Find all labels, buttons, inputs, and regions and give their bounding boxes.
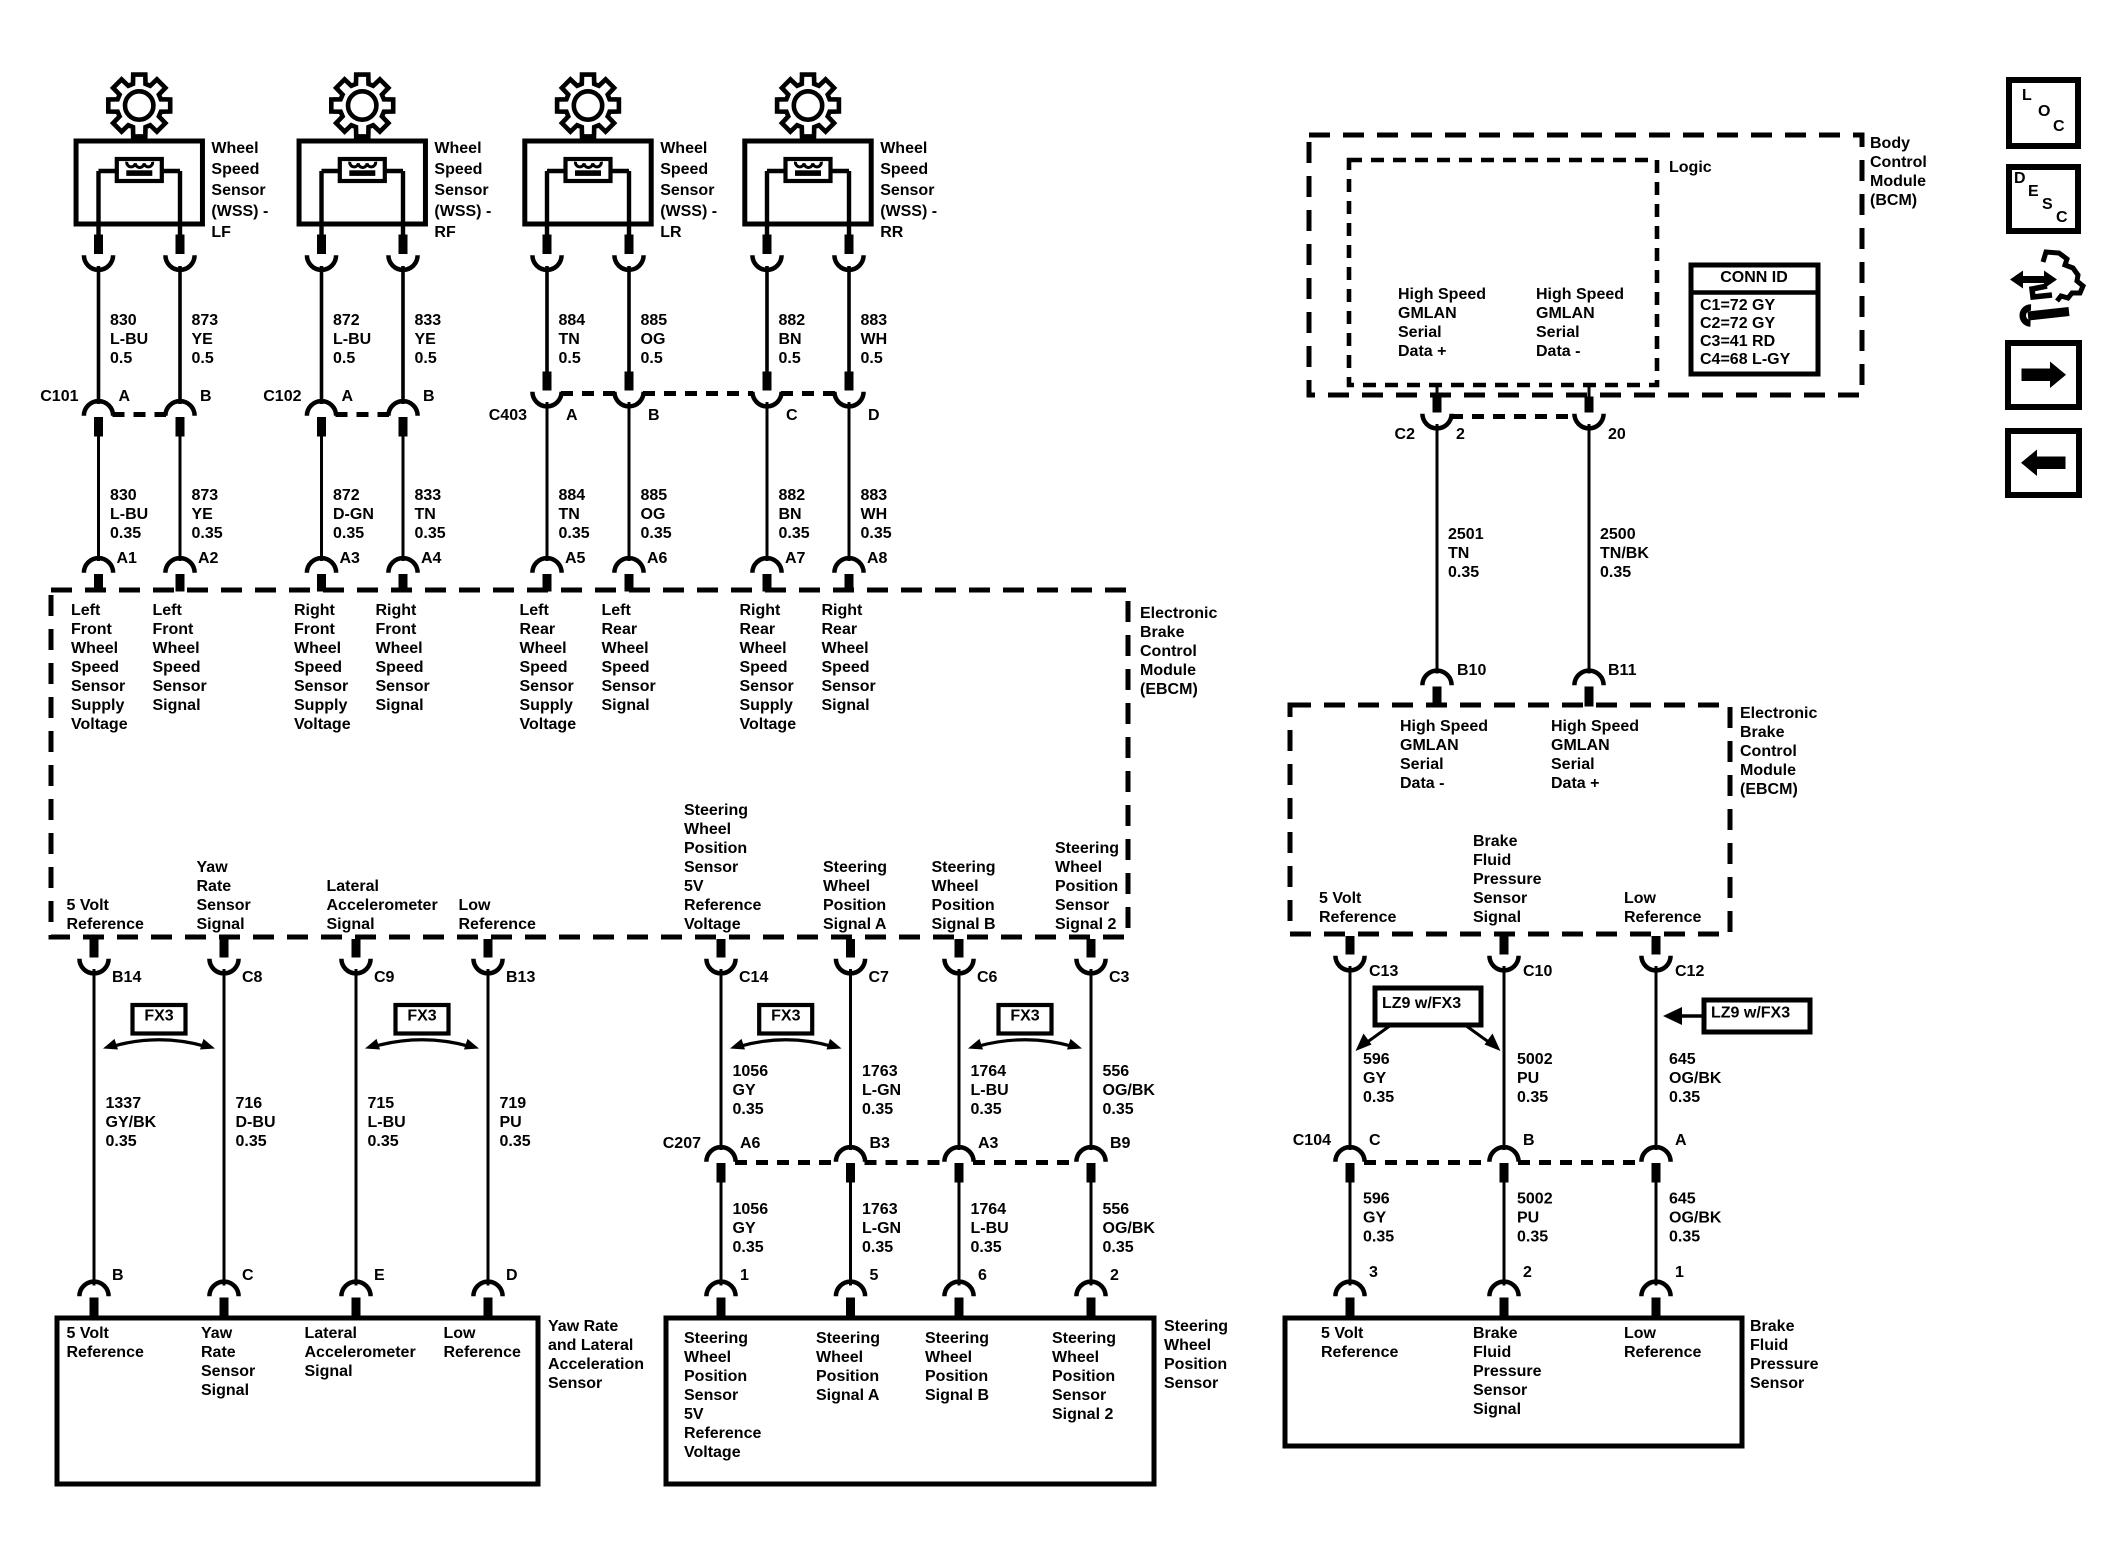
svg-text:Wheel: Wheel: [376, 640, 423, 657]
FX3 splice flag steering 2: [968, 1005, 1082, 1050]
svg-text:Rear: Rear: [822, 621, 858, 638]
wire 596 GY 0.35 lower: [1350, 1182, 1394, 1286]
wire 1763 L-GN 0.35 lower: [851, 1182, 902, 1286]
svg-text:830: 830: [110, 312, 137, 329]
svg-text:A4: A4: [421, 550, 442, 567]
svg-text:Control: Control: [1740, 743, 1797, 760]
svg-text:0.35: 0.35: [1103, 1101, 1134, 1118]
gear icon wheel RR: [777, 75, 839, 137]
svg-text:Pressure: Pressure: [1750, 1356, 1819, 1373]
svg-text:High Speed: High Speed: [1400, 718, 1488, 735]
svg-text:Position: Position: [925, 1368, 988, 1385]
forward arrow icon: [2008, 343, 2079, 407]
EBCM pin A1 connector: [84, 550, 137, 591]
svg-text:WH: WH: [861, 506, 888, 523]
Body Control Module (BCM) dashed box: [1309, 135, 1862, 395]
FX3 splice flag left 2: [365, 1005, 479, 1050]
svg-text:Steering: Steering: [925, 1330, 989, 1347]
FX3 splice flag left 1: [103, 1005, 215, 1050]
svg-text:1337: 1337: [106, 1095, 142, 1112]
svg-text:GY/BK: GY/BK: [106, 1114, 157, 1131]
wire 716 D-BU 0.35: [224, 969, 276, 1286]
yaw sensor pin C connector: [209, 1267, 254, 1317]
svg-text:1: 1: [740, 1267, 749, 1284]
Electronic Brake Control Module (EBCM) dashed box: [51, 590, 1128, 937]
svg-text:OG/BK: OG/BK: [1103, 1082, 1156, 1099]
svg-text:0.35: 0.35: [368, 1133, 399, 1150]
svg-text:LF: LF: [211, 224, 231, 241]
svg-text:Control: Control: [1870, 154, 1927, 171]
label Wheel Speed Sensor (WSS) LR: [660, 140, 717, 241]
svg-text:Voltage: Voltage: [684, 916, 741, 933]
svg-text:Reference: Reference: [67, 1344, 144, 1361]
svg-text:833: 833: [415, 312, 442, 329]
svg-text:C4=68 L-GY: C4=68 L-GY: [1700, 351, 1791, 368]
svg-text:2: 2: [1523, 1264, 1532, 1281]
svg-text:0.35: 0.35: [415, 525, 446, 542]
svg-text:Electronic: Electronic: [1740, 705, 1817, 722]
svg-text:Sensor: Sensor: [520, 678, 574, 695]
svg-text:Sensor: Sensor: [822, 678, 876, 695]
svg-text:Sensor: Sensor: [660, 182, 714, 199]
svg-text:Sensor: Sensor: [153, 678, 207, 695]
svg-text:Wheel: Wheel: [294, 640, 341, 657]
svg-text:Signal A: Signal A: [823, 916, 887, 933]
wire 5002 PU 0.35 upper: [1504, 966, 1553, 1150]
EBCM pin C3 connector: [1076, 940, 1129, 986]
brake sensor pin 3 connector: [1335, 1264, 1378, 1317]
svg-text:884: 884: [559, 487, 586, 504]
svg-text:Wheel: Wheel: [684, 821, 731, 838]
svg-text:0.35: 0.35: [733, 1101, 764, 1118]
svg-text:L-GN: L-GN: [862, 1082, 901, 1099]
svg-text:Yaw: Yaw: [197, 859, 229, 876]
svg-text:Signal: Signal: [1473, 1401, 1521, 1418]
C104 dashed links: [1364, 1160, 1642, 1165]
svg-text:0.35: 0.35: [192, 525, 223, 542]
svg-text:Fluid: Fluid: [1473, 852, 1511, 869]
svg-text:L-BU: L-BU: [110, 331, 148, 348]
svg-text:PU: PU: [1517, 1209, 1539, 1226]
svg-text:Wheel: Wheel: [71, 640, 118, 657]
svg-text:Module: Module: [1870, 173, 1926, 190]
svg-text:B3: B3: [870, 1135, 891, 1152]
svg-text:C8: C8: [242, 969, 263, 986]
svg-text:GMLAN: GMLAN: [1536, 305, 1595, 322]
label Wheel Speed Sensor (WSS) RR: [880, 140, 937, 241]
svg-text:0.35: 0.35: [1363, 1228, 1394, 1245]
EBCM pin A8 connector: [834, 550, 887, 591]
svg-text:L-BU: L-BU: [110, 506, 148, 523]
svg-text:Signal 2: Signal 2: [1052, 1406, 1113, 1423]
steering sensor pin 2 connector: [1076, 1267, 1119, 1317]
EBCM pin C13 connector: [1335, 937, 1398, 980]
brake sensor terminal labels: [1321, 1325, 1701, 1418]
svg-text:A: A: [119, 388, 131, 405]
svg-text:556: 556: [1103, 1063, 1130, 1080]
svg-text:Signal B: Signal B: [932, 916, 996, 933]
svg-text:5V: 5V: [684, 1406, 704, 1423]
svg-text:Right: Right: [294, 602, 336, 619]
svg-text:Pressure: Pressure: [1473, 1363, 1542, 1380]
svg-text:Yaw: Yaw: [201, 1325, 233, 1342]
svg-text:Position: Position: [1164, 1356, 1227, 1373]
svg-text:0.35: 0.35: [1103, 1239, 1134, 1256]
svg-text:(WSS) -: (WSS) -: [660, 203, 717, 220]
svg-text:C207: C207: [663, 1135, 701, 1152]
svg-text:Rear: Rear: [602, 621, 638, 638]
svg-text:Sensor: Sensor: [434, 182, 488, 199]
svg-text:A7: A7: [785, 550, 806, 567]
svg-text:Data +: Data +: [1398, 343, 1446, 360]
svg-text:5002: 5002: [1517, 1190, 1553, 1207]
svg-text:Low: Low: [1624, 1325, 1657, 1342]
svg-text:Sensor: Sensor: [201, 1363, 255, 1380]
EBCM pin A2 connector: [165, 550, 218, 591]
svg-text:0.35: 0.35: [641, 525, 672, 542]
svg-text:Acceleration: Acceleration: [548, 1356, 644, 1373]
EBCM input labels: [71, 602, 876, 733]
wire 883 WH 0.5: [849, 266, 887, 372]
svg-text:Sensor: Sensor: [684, 1387, 738, 1404]
svg-text:Reference: Reference: [684, 897, 761, 914]
svg-text:RR: RR: [880, 224, 904, 241]
svg-text:Brake: Brake: [1740, 724, 1785, 741]
svg-text:Data -: Data -: [1536, 343, 1580, 360]
svg-text:(WSS) -: (WSS) -: [434, 203, 491, 220]
svg-text:Low: Low: [459, 897, 492, 914]
svg-text:B: B: [200, 388, 212, 405]
svg-text:645: 645: [1669, 1051, 1696, 1068]
svg-text:A5: A5: [565, 550, 586, 567]
connector C104 pin C: [1335, 1132, 1381, 1182]
wire 872 D-GN 0.35: [322, 436, 374, 561]
connector C207 pin B3: [836, 1135, 890, 1182]
wire 833 TN 0.35: [403, 436, 446, 561]
steering sensor pin 6 connector: [944, 1267, 987, 1317]
EBCM pin B11 connector: [1574, 662, 1636, 706]
svg-text:0.35: 0.35: [779, 525, 810, 542]
wire 2500 TN/BK 0.35: [1574, 385, 1649, 674]
svg-text:Wheel: Wheel: [740, 640, 787, 657]
svg-text:Electronic: Electronic: [1140, 605, 1217, 622]
svg-text:Signal: Signal: [197, 916, 245, 933]
svg-text:0.35: 0.35: [333, 525, 364, 542]
wire 1056 GY 0.35 upper: [721, 969, 768, 1150]
svg-text:TN: TN: [559, 506, 580, 523]
svg-text:0.5: 0.5: [110, 350, 132, 367]
wire 873 YE 0.5: [180, 266, 218, 404]
svg-text:Front: Front: [294, 621, 336, 638]
wire 882 BN 0.35: [767, 402, 810, 561]
svg-text:and Lateral: and Lateral: [548, 1337, 633, 1354]
svg-text:Fluid: Fluid: [1750, 1337, 1788, 1354]
svg-text:Wheel: Wheel: [520, 640, 567, 657]
C207 dashed links: [735, 1160, 1077, 1165]
svg-text:C403: C403: [489, 407, 527, 424]
svg-text:Sensor: Sensor: [880, 182, 934, 199]
svg-text:Speed: Speed: [740, 659, 788, 676]
svg-text:883: 883: [861, 487, 888, 504]
svg-text:5 Volt: 5 Volt: [1319, 890, 1362, 907]
svg-text:Sensor: Sensor: [294, 678, 348, 695]
yaw sensor pin D connector: [473, 1267, 517, 1317]
svg-text:Sensor: Sensor: [548, 1375, 602, 1392]
WSS RR pigtail connector left: [752, 235, 781, 270]
svg-text:Speed: Speed: [71, 659, 119, 676]
svg-text:Speed: Speed: [294, 659, 342, 676]
svg-text:5 Volt: 5 Volt: [1321, 1325, 1364, 1342]
svg-text:Control: Control: [1140, 643, 1197, 660]
svg-text:FX3: FX3: [407, 1008, 436, 1025]
gear icon wheel LF: [108, 75, 170, 137]
svg-text:LR: LR: [660, 224, 682, 241]
EBCM pin C14 connector: [706, 940, 768, 986]
svg-text:C: C: [786, 407, 798, 424]
svg-text:Position: Position: [684, 840, 747, 857]
svg-text:Reference: Reference: [444, 1344, 521, 1361]
svg-text:C: C: [1369, 1132, 1381, 1149]
svg-text:D: D: [506, 1267, 518, 1284]
label Body Control Module (BCM): [1870, 135, 1927, 209]
svg-text:GMLAN: GMLAN: [1400, 737, 1459, 754]
svg-text:Position: Position: [816, 1368, 879, 1385]
svg-text:A: A: [342, 388, 354, 405]
svg-text:0.5: 0.5: [559, 350, 581, 367]
svg-text:0.5: 0.5: [641, 350, 663, 367]
svg-text:Steering: Steering: [684, 802, 748, 819]
wire 873 YE 0.35: [180, 436, 223, 561]
EBCM pin A4 connector: [388, 550, 441, 591]
EBCM pin C9 connector: [341, 940, 394, 986]
svg-text:Accelerometer: Accelerometer: [305, 1344, 416, 1361]
svg-text:5V: 5V: [684, 878, 704, 895]
svg-text:873: 873: [192, 312, 219, 329]
svg-text:0.35: 0.35: [1669, 1089, 1700, 1106]
svg-text:GY: GY: [733, 1082, 756, 1099]
svg-text:L-BU: L-BU: [333, 331, 371, 348]
svg-text:OG/BK: OG/BK: [1669, 1070, 1722, 1087]
svg-text:5002: 5002: [1517, 1051, 1553, 1068]
svg-text:5 Volt: 5 Volt: [67, 1325, 110, 1342]
svg-text:Supply: Supply: [520, 697, 573, 714]
svg-text:Speed: Speed: [660, 161, 708, 178]
svg-text:716: 716: [236, 1095, 263, 1112]
svg-text:2501: 2501: [1448, 526, 1484, 543]
svg-text:Serial: Serial: [1400, 756, 1444, 773]
svg-text:Module: Module: [1740, 762, 1796, 779]
svg-text:TN: TN: [559, 331, 580, 348]
svg-text:0.35: 0.35: [106, 1133, 137, 1150]
svg-text:B: B: [1523, 1132, 1535, 1149]
svg-text:Steering: Steering: [1055, 840, 1119, 857]
svg-text:2500: 2500: [1600, 526, 1636, 543]
wire 883 WH 0.35: [849, 402, 892, 561]
svg-text:Wheel: Wheel: [823, 878, 870, 895]
svg-text:(EBCM): (EBCM): [1740, 781, 1798, 798]
svg-text:A3: A3: [340, 550, 361, 567]
svg-text:A2: A2: [198, 550, 219, 567]
svg-text:596: 596: [1363, 1051, 1390, 1068]
svg-text:Rear: Rear: [520, 621, 556, 638]
svg-text:Front: Front: [71, 621, 113, 638]
svg-text:Sensor: Sensor: [602, 678, 656, 695]
svg-text:20: 20: [1608, 426, 1626, 443]
svg-text:0.35: 0.35: [1448, 564, 1479, 581]
EBCM2 output labels: [1319, 833, 1701, 926]
svg-text:C10: C10: [1523, 963, 1552, 980]
wire 885 OG 0.5: [629, 266, 667, 372]
svg-text:0.35: 0.35: [1517, 1089, 1548, 1106]
svg-text:Position: Position: [1055, 878, 1118, 895]
svg-text:B11: B11: [1608, 662, 1637, 679]
WSS RR pigtail connector right: [834, 235, 863, 270]
svg-text:Signal: Signal: [376, 697, 424, 714]
svg-text:D-GN: D-GN: [333, 506, 374, 523]
svg-text:Reference: Reference: [459, 916, 536, 933]
svg-text:0.35: 0.35: [1600, 564, 1631, 581]
svg-text:LZ9 w/FX3: LZ9 w/FX3: [1711, 1004, 1790, 1021]
wire 645 OG/BK 0.35 upper: [1656, 966, 1722, 1150]
svg-text:Steering: Steering: [816, 1330, 880, 1347]
connector C101: [40, 388, 211, 436]
svg-text:Front: Front: [153, 621, 195, 638]
svg-text:556: 556: [1103, 1201, 1130, 1218]
EBCM pin C12 connector: [1641, 937, 1704, 980]
wire 556 OG/BK 0.35 lower: [1091, 1182, 1155, 1286]
label Logic: [1669, 159, 1712, 176]
svg-text:0.35: 0.35: [110, 525, 141, 542]
svg-text:Data +: Data +: [1551, 775, 1599, 792]
svg-text:0.5: 0.5: [861, 350, 883, 367]
svg-text:E: E: [2028, 183, 2039, 200]
svg-text:Wheel: Wheel: [1055, 859, 1102, 876]
LOC icon: [2009, 80, 2078, 146]
svg-text:Wheel: Wheel: [602, 640, 649, 657]
svg-text:Sensor: Sensor: [740, 678, 794, 695]
EBCM2 High Speed GMLAN Serial Data + label: [1551, 718, 1639, 792]
EBCM pin A5 connector: [532, 550, 585, 591]
svg-text:OG: OG: [641, 506, 666, 523]
svg-text:Speed: Speed: [880, 161, 928, 178]
steering sensor pin 5 connector: [836, 1267, 879, 1317]
svg-text:Wheel: Wheel: [1052, 1349, 1099, 1366]
svg-text:Sensor: Sensor: [71, 678, 125, 695]
svg-text:1056: 1056: [733, 1063, 769, 1080]
svg-text:TN/BK: TN/BK: [1600, 545, 1649, 562]
svg-text:1: 1: [1675, 1264, 1684, 1281]
svg-text:A: A: [566, 407, 578, 424]
svg-text:(WSS) -: (WSS) -: [211, 203, 268, 220]
svg-text:0.5: 0.5: [192, 350, 214, 367]
svg-text:C: C: [242, 1267, 254, 1284]
svg-text:Speed: Speed: [822, 659, 870, 676]
label Yaw Rate and Lateral Acceleration Sensor: [548, 1318, 644, 1392]
svg-text:0.35: 0.35: [1517, 1228, 1548, 1245]
svg-text:1764: 1764: [971, 1201, 1007, 1218]
svg-text:RF: RF: [434, 224, 456, 241]
yaw sensor pin E connector: [341, 1267, 385, 1317]
svg-text:Supply: Supply: [71, 697, 124, 714]
svg-text:GMLAN: GMLAN: [1398, 305, 1457, 322]
svg-text:0.35: 0.35: [559, 525, 590, 542]
svg-text:OG/BK: OG/BK: [1103, 1220, 1156, 1237]
svg-text:Pressure: Pressure: [1473, 871, 1542, 888]
svg-text:C3: C3: [1109, 969, 1130, 986]
label Steering Wheel Position Sensor: [1164, 1318, 1228, 1392]
svg-text:A6: A6: [740, 1135, 761, 1152]
svg-text:Wheel: Wheel: [816, 1349, 863, 1366]
svg-text:885: 885: [641, 487, 668, 504]
svg-text:GY: GY: [1363, 1209, 1386, 1226]
svg-text:Steering: Steering: [823, 859, 887, 876]
svg-text:Sensor: Sensor: [684, 859, 738, 876]
svg-text:A8: A8: [867, 550, 888, 567]
svg-text:C9: C9: [374, 969, 395, 986]
svg-text:0.5: 0.5: [415, 350, 437, 367]
svg-text:LZ9 w/FX3: LZ9 w/FX3: [1382, 995, 1461, 1012]
wire 1337 GY/BK 0.35: [94, 969, 157, 1286]
svg-text:Wheel: Wheel: [822, 640, 869, 657]
svg-text:Signal 2: Signal 2: [1055, 916, 1116, 933]
svg-text:Supply: Supply: [740, 697, 793, 714]
label Wheel Speed Sensor (WSS) LF: [211, 140, 268, 241]
svg-text:Reference: Reference: [1319, 909, 1396, 926]
svg-text:C101: C101: [40, 388, 78, 405]
svg-text:2: 2: [1456, 426, 1465, 443]
svg-text:B10: B10: [1457, 662, 1486, 679]
svg-text:Wheel: Wheel: [932, 878, 979, 895]
connector C2 labels: [1395, 417, 1626, 443]
brake sensor pin 2 connector: [1489, 1264, 1532, 1317]
wheel speed sensor (WSS) LF box: [76, 141, 202, 235]
svg-text:Serial: Serial: [1551, 756, 1595, 773]
svg-text:884: 884: [559, 312, 586, 329]
svg-text:0.35: 0.35: [1363, 1089, 1394, 1106]
svg-text:Rear: Rear: [740, 621, 776, 638]
svg-text:FX3: FX3: [771, 1008, 800, 1025]
wire 715 L-BU 0.35: [356, 969, 406, 1286]
svg-text:S: S: [2042, 196, 2053, 213]
wire 872 L-BU 0.5: [322, 266, 372, 404]
svg-text:596: 596: [1363, 1190, 1390, 1207]
svg-text:Yaw Rate: Yaw Rate: [548, 1318, 618, 1335]
EBCM pin A7 connector: [752, 550, 805, 591]
svg-text:Left: Left: [520, 602, 550, 619]
svg-text:C102: C102: [263, 388, 301, 405]
svg-text:Voltage: Voltage: [71, 716, 128, 733]
svg-text:E: E: [374, 1267, 385, 1284]
gear icon wheel RF: [331, 75, 393, 137]
label Wheel Speed Sensor (WSS) RF: [434, 140, 491, 241]
wrench / harness icon: [2010, 252, 2083, 324]
svg-text:A3: A3: [978, 1135, 999, 1152]
wire 882 BN 0.5: [767, 266, 805, 372]
svg-text:C7: C7: [869, 969, 890, 986]
Yaw Rate and Lateral Acceleration Sensor box: [57, 1318, 538, 1484]
svg-text:Left: Left: [71, 602, 101, 619]
svg-text:Rate: Rate: [197, 878, 232, 895]
svg-text:Body: Body: [1870, 135, 1910, 152]
svg-text:O: O: [2038, 103, 2050, 120]
svg-text:Voltage: Voltage: [520, 716, 577, 733]
svg-text:Serial: Serial: [1398, 324, 1442, 341]
connector C104 pin A: [1641, 1132, 1687, 1182]
svg-text:0.35: 0.35: [861, 525, 892, 542]
svg-text:B: B: [112, 1267, 124, 1284]
svg-text:0.5: 0.5: [779, 350, 801, 367]
connector C403: [489, 372, 880, 424]
